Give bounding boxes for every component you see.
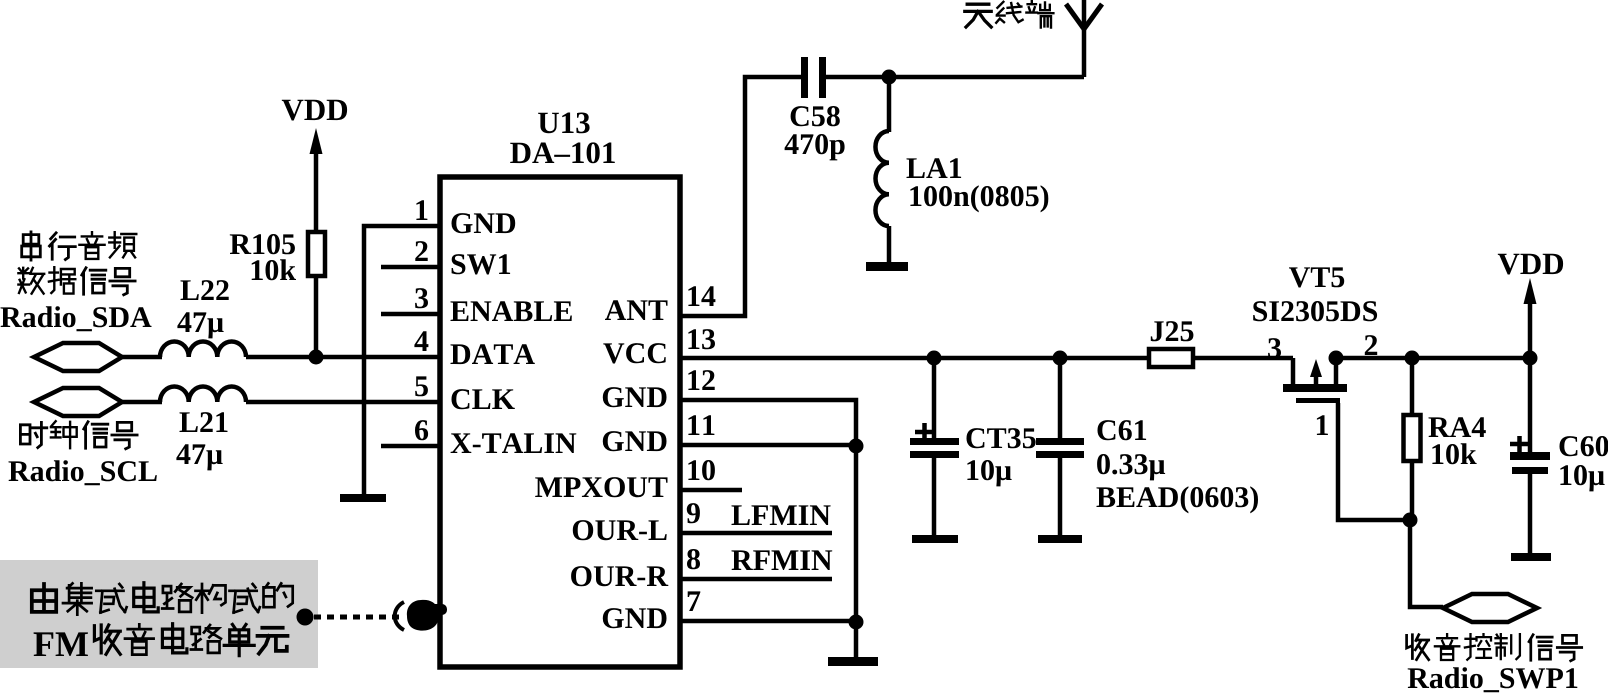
wire VDD arrow to R105: [314, 150, 319, 233]
pin name DATA (left): [451, 344, 535, 364]
callout dot: [297, 609, 314, 626]
capacitor CT35 (electrolytic): [932, 358, 937, 440]
label Radio_SWP1: [1408, 667, 1578, 692]
pin 3 stub: [381, 312, 440, 317]
capacitor C58: [801, 57, 808, 98]
wire L21 to pin5 CLK: [246, 400, 441, 405]
pin name ANT (right): [605, 300, 668, 320]
inductor L22: [160, 341, 246, 357]
label C60 value: [1560, 436, 1608, 456]
pin number 9: [687, 503, 700, 523]
junction pin7/rail: [849, 615, 864, 630]
resistor R105: [308, 232, 325, 276]
label LFMIN: [732, 505, 831, 525]
pin number 14: [688, 286, 715, 306]
label 数据信号 (data signal): [18, 268, 44, 294]
pin number 7: [688, 591, 701, 611]
resistor RA4: [1410, 358, 1415, 415]
wire pin12 GND to gnd rail: [680, 400, 856, 658]
label Radio_SDA: [1, 306, 152, 331]
pin name VCC (right): [603, 343, 665, 363]
pin number 11: [688, 415, 714, 435]
label CT35 value: [967, 428, 1036, 448]
resistor J25: [1149, 349, 1193, 367]
wire pin8 OUR-R / RFMIN: [680, 577, 832, 582]
pin number 3 (VT5): [1268, 338, 1281, 358]
wire pin9 OUR-L / LFMIN: [680, 531, 832, 536]
pin name MPXOUT (right): [535, 477, 667, 497]
inductor LA1: [887, 77, 892, 132]
pin number 10: [688, 460, 715, 480]
ground (LA1): [866, 262, 908, 271]
junction CT35: [927, 351, 942, 366]
label LA1 value: [907, 158, 962, 178]
pin name OUR-L (right): [573, 520, 667, 540]
connector Radio_SCL: [34, 388, 122, 416]
junction VDD/C60: [1523, 351, 1538, 366]
pin 2 stub: [381, 265, 440, 270]
pin number 3: [415, 288, 428, 308]
pointing hand icon: [395, 600, 447, 631]
wire SDA to L22: [122, 355, 162, 360]
label L21 value: [180, 412, 228, 432]
wire VT5 gate to RA4 bottom: [1338, 403, 1410, 520]
pin name GND (right): [603, 431, 667, 451]
label C61 value: [1098, 420, 1147, 440]
label VT5: [1289, 267, 1344, 287]
pin name GND (right): [603, 387, 667, 407]
junction R105/DATA: [309, 350, 324, 365]
junction C61: [1053, 351, 1068, 366]
pin name CLK (left): [452, 389, 515, 409]
wire pin7 GND: [680, 619, 856, 624]
capacitor C61: [1058, 358, 1063, 440]
wire J25 to VT5 source: [1193, 356, 1293, 361]
junction C58/LA1 node: [882, 70, 897, 85]
pin number 2: [415, 241, 427, 261]
junction RA4 top: [1405, 351, 1420, 366]
pin 10 MPXOUT stub: [680, 488, 742, 493]
label R105 value: [230, 234, 295, 254]
wire R105 to DATA line: [314, 276, 319, 358]
pin name GND (right): [603, 608, 667, 628]
label L22 value: [181, 280, 229, 300]
pin number 1 (VT5): [1317, 415, 1328, 435]
pin number 1: [416, 200, 427, 220]
ground (left rail): [340, 494, 386, 502]
junction pin11/rail: [849, 439, 864, 454]
power VDD (left): [282, 100, 347, 121]
wire pin11 GND: [680, 443, 856, 448]
wire pin13 VCC to J25: [680, 356, 1149, 361]
label DA-101: [510, 142, 615, 163]
label RFMIN: [732, 550, 833, 570]
pin number 6: [415, 420, 428, 440]
ground (C60): [1511, 553, 1551, 561]
wire pin1 GND to ground rail: [364, 226, 441, 496]
ground (CT35): [912, 535, 958, 543]
label 由集成电路构成的: [32, 584, 56, 612]
pin name SW1 (left): [452, 254, 511, 274]
pin number 13: [688, 329, 715, 349]
pin number 2 (VT5): [1365, 335, 1377, 355]
label RA4 value: [1429, 417, 1486, 437]
label C58 value: [791, 106, 840, 126]
pin 6 stub: [381, 444, 440, 449]
pin number 8: [687, 549, 700, 569]
pin name OUR-R (right): [571, 566, 668, 586]
power VDD (right): [1498, 254, 1563, 275]
inductor L21: [160, 386, 246, 402]
pin number 12: [688, 370, 714, 390]
junction VT5 drain: [1329, 351, 1344, 366]
wire to Radio_SWP1 connector: [1410, 520, 1443, 607]
ground (C61): [1038, 535, 1082, 543]
pin number 5: [415, 376, 428, 396]
label J25: [1151, 321, 1194, 341]
pin number 4: [414, 331, 428, 351]
wire SCL to L21: [122, 400, 162, 405]
label 时钟信号 (clock signal): [20, 422, 46, 447]
pin name ENABLE (left): [451, 301, 572, 321]
wire L22 to pin4 DATA: [246, 355, 441, 360]
ground (IC right rail): [828, 657, 878, 666]
pin name GND (left): [452, 213, 516, 233]
callout dotted line: [314, 615, 400, 620]
label U13: [538, 113, 590, 134]
connector Radio_SWP1: [1443, 594, 1537, 622]
wire pin14 ANT up to C58: [680, 77, 803, 316]
junction RA4/gate/SWP1: [1403, 513, 1418, 528]
label 天线端 (antenna terminal): [965, 4, 991, 27]
label FM收音电路单元: [34, 632, 88, 656]
antenna symbol: [1082, 0, 1087, 77]
callout box (FM radio unit note): [0, 560, 318, 668]
pin name X-TALIN (left): [451, 433, 577, 453]
label Radio_SCL: [9, 460, 157, 485]
IC U13 DA-101 box: [440, 177, 680, 667]
connector Radio_SDA: [34, 343, 122, 371]
wire C58 to antenna: [826, 75, 1084, 80]
label 收音控制信号 (radio control signal): [1407, 635, 1429, 660]
capacitor C60 (electrolytic): [1528, 358, 1533, 452]
label 串行音频 (serial audio): [22, 232, 41, 260]
transistor VT5 P-MOSFET: [1291, 358, 1296, 386]
wire VT5 drain to VDD node: [1336, 356, 1530, 361]
